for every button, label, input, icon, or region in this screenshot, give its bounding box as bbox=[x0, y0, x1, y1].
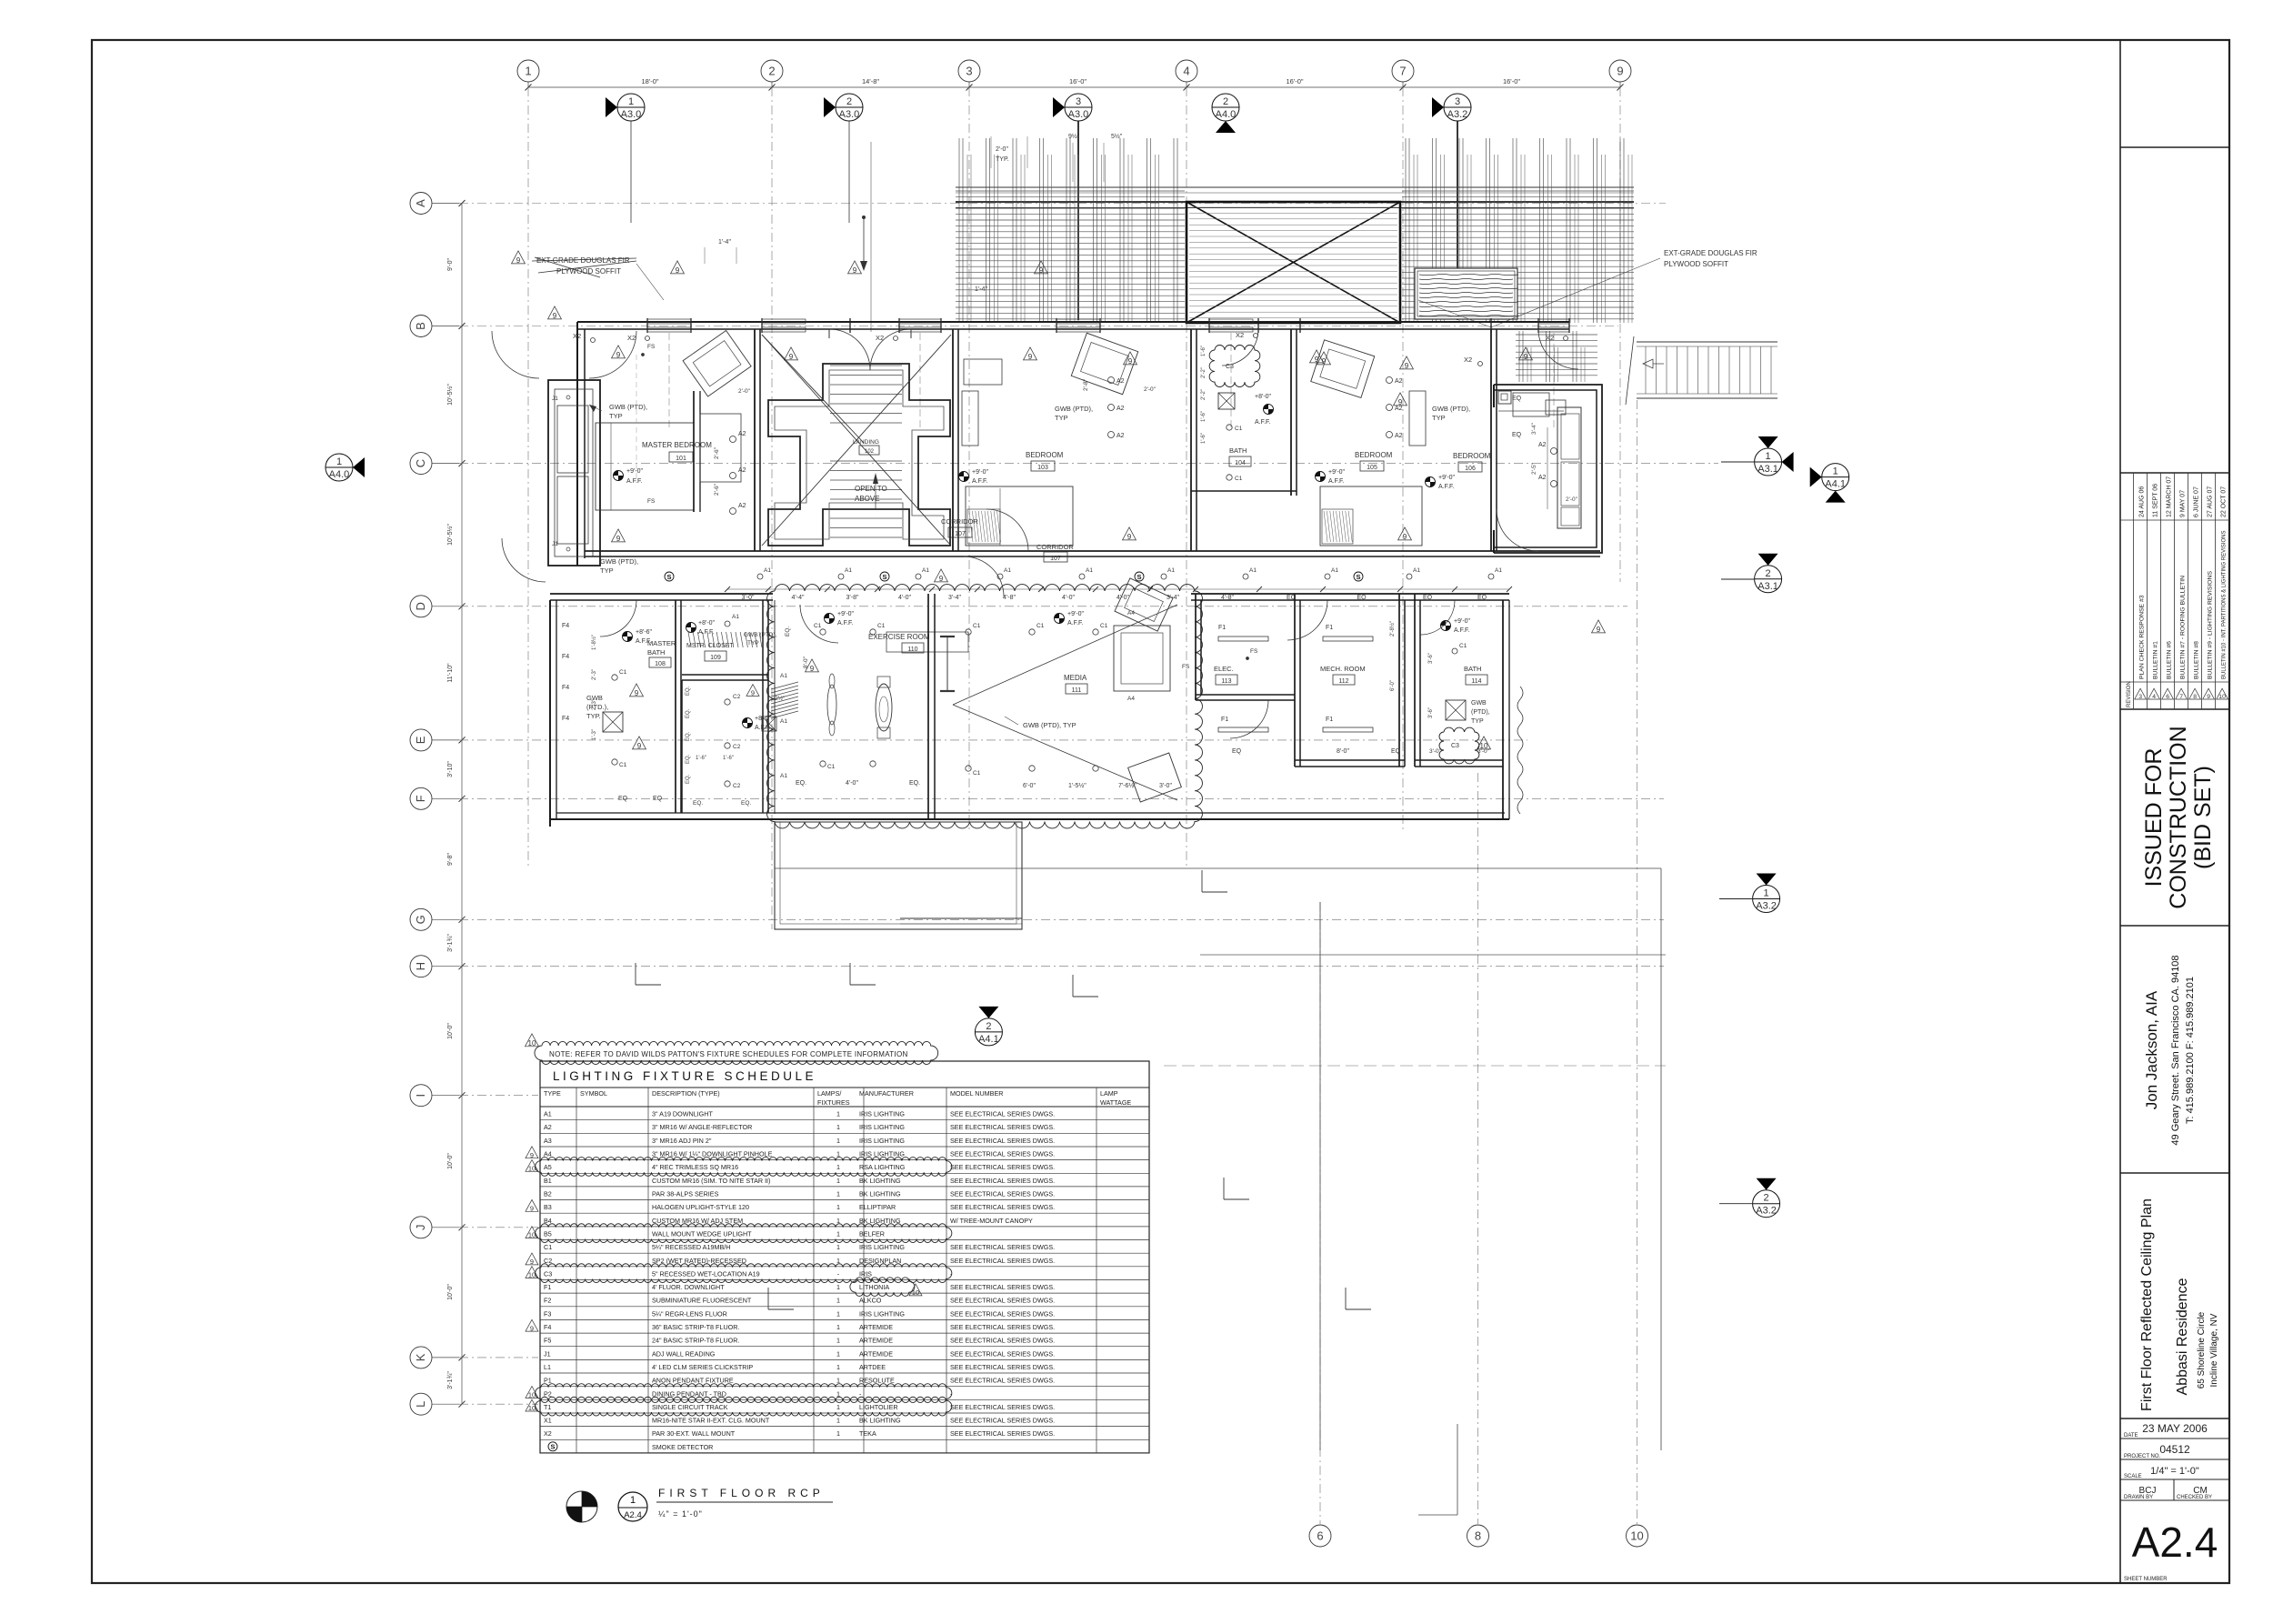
stair top double doors bbox=[829, 329, 870, 370]
svg-text:1'-6": 1'-6" bbox=[1201, 346, 1207, 356]
svg-text:A1: A1 bbox=[764, 567, 771, 574]
svg-text:BELFER: BELFER bbox=[859, 1230, 885, 1238]
svg-text:A3.2: A3.2 bbox=[1756, 1206, 1777, 1217]
svg-text:10: 10 bbox=[912, 1288, 919, 1297]
svg-text:First Floor Reflected Ceiling: First Floor Reflected Ceiling Plan bbox=[2139, 1198, 2155, 1411]
svg-text:1: 1 bbox=[836, 1309, 840, 1318]
svg-text:C3: C3 bbox=[1451, 743, 1459, 749]
stair X open-to-above bbox=[762, 335, 951, 546]
svg-text:C2: C2 bbox=[733, 783, 741, 789]
svg-text:6 JUNE 07: 6 JUNE 07 bbox=[2193, 486, 2199, 517]
svg-text:9: 9 bbox=[1405, 362, 1409, 370]
stair bridge right bbox=[1637, 341, 1777, 343]
svg-text:2: 2 bbox=[1764, 1193, 1769, 1204]
svg-text:X2: X2 bbox=[573, 332, 581, 340]
svg-text:FIXTURES: FIXTURES bbox=[817, 1098, 850, 1107]
svg-text:C1: C1 bbox=[1235, 426, 1243, 432]
svg-text:L: L bbox=[414, 1401, 427, 1408]
svg-text:SEE ELECTRICAL SERIES DWGS.: SEE ELECTRICAL SERIES DWGS. bbox=[950, 1349, 1055, 1358]
svg-text:EQ.: EQ. bbox=[785, 627, 791, 637]
svg-text:IRIS LIGHTING: IRIS LIGHTING bbox=[859, 1110, 905, 1118]
svg-text:SEE ELECTRICAL SERIES DWGS.: SEE ELECTRICAL SERIES DWGS. bbox=[950, 1123, 1055, 1131]
svg-text:SEE ELECTRICAL SERIES DWGS.: SEE ELECTRICAL SERIES DWGS. bbox=[950, 1429, 1055, 1438]
svg-text:B2: B2 bbox=[544, 1190, 552, 1198]
lighting fixture schedule bbox=[540, 1061, 1149, 1453]
svg-text:MASTER BEDROOM: MASTER BEDROOM bbox=[642, 441, 712, 449]
svg-text:BATH: BATH bbox=[1464, 665, 1481, 673]
svg-text:LAMPS/: LAMPS/ bbox=[817, 1089, 841, 1098]
svg-text:2: 2 bbox=[1766, 568, 1771, 579]
svg-text:2: 2 bbox=[846, 96, 852, 107]
svg-text:MR16-NITE STAR II-EXT. CLG. MO: MR16-NITE STAR II-EXT. CLG. MOUNT bbox=[652, 1417, 770, 1425]
svg-text:105: 105 bbox=[1367, 465, 1377, 471]
svg-text:1: 1 bbox=[630, 1495, 636, 1506]
svg-text:SEE ELECTRICAL SERIES DWGS.: SEE ELECTRICAL SERIES DWGS. bbox=[950, 1257, 1055, 1265]
svg-text:1: 1 bbox=[836, 1363, 840, 1371]
svg-text:OPEN TO: OPEN TO bbox=[855, 485, 887, 493]
elec room bbox=[1195, 594, 1197, 700]
svg-text:3: 3 bbox=[966, 65, 972, 78]
svg-text:C1: C1 bbox=[973, 770, 981, 777]
svg-text:10: 10 bbox=[528, 1271, 536, 1279]
svg-text:A3.0: A3.0 bbox=[839, 109, 860, 120]
svg-text:9: 9 bbox=[751, 689, 755, 697]
svg-text:C1: C1 bbox=[1459, 643, 1467, 649]
svg-text:22 OCT 07: 22 OCT 07 bbox=[2220, 486, 2227, 517]
svg-text:A2: A2 bbox=[738, 467, 746, 474]
svg-text:W/ TREE-MOUNT CANOPY: W/ TREE-MOUNT CANOPY bbox=[950, 1217, 1033, 1225]
svg-text:C2: C2 bbox=[733, 694, 741, 700]
svg-text:BCJ: BCJ bbox=[2139, 1486, 2157, 1496]
svg-text:LIGHTOLIER: LIGHTOLIER bbox=[859, 1403, 898, 1411]
svg-text:2'-0": 2'-0" bbox=[1566, 496, 1578, 503]
svg-text:A4.1: A4.1 bbox=[1825, 479, 1846, 490]
centerline arrow bbox=[863, 217, 865, 266]
svg-text:DATE: DATE bbox=[2124, 1433, 2138, 1439]
svg-text:1: 1 bbox=[836, 1230, 840, 1238]
svg-text:1/4" = 1'-0": 1/4" = 1'-0" bbox=[2150, 1466, 2199, 1477]
crossed skylight box bbox=[1187, 202, 1400, 323]
svg-text:2'-8½": 2'-8½" bbox=[1389, 621, 1396, 637]
svg-text:PLAN CHECK RESPONSE #3: PLAN CHECK RESPONSE #3 bbox=[2138, 595, 2145, 679]
svg-text:3'-6": 3'-6" bbox=[1428, 707, 1434, 718]
svg-text:TYP.: TYP. bbox=[996, 156, 1009, 163]
svg-text:4'-0": 4'-0" bbox=[846, 780, 858, 787]
svg-text:111: 111 bbox=[1072, 687, 1082, 694]
svg-text:BULLETIN #8: BULLETIN #8 bbox=[2193, 641, 2199, 679]
svg-text:GWB (PTD),: GWB (PTD), bbox=[1055, 405, 1093, 413]
svg-text:A3.0: A3.0 bbox=[621, 109, 642, 120]
svg-text:SEE ELECTRICAL SERIES DWGS.: SEE ELECTRICAL SERIES DWGS. bbox=[950, 1297, 1055, 1305]
svg-text:RESOLUTE: RESOLUTE bbox=[859, 1377, 895, 1385]
svg-text:J1: J1 bbox=[552, 541, 558, 547]
svg-text:BULLETIN #7 - ROOFING BULLETIN: BULLETIN #7 - ROOFING BULLETIN bbox=[2179, 576, 2186, 679]
svg-text:4' FLUOR. DOWNLIGHT: 4' FLUOR. DOWNLIGHT bbox=[652, 1283, 725, 1291]
svg-text:F4: F4 bbox=[562, 716, 569, 722]
svg-text:BK LIGHTING: BK LIGHTING bbox=[859, 1217, 901, 1225]
svg-text:9: 9 bbox=[530, 1324, 534, 1332]
wall bedroom103/bath104 bbox=[1190, 329, 1192, 551]
exterior wall top bbox=[577, 321, 1569, 323]
svg-text:EQ: EQ bbox=[1512, 396, 1522, 402]
svg-text:SEE ELECTRICAL SERIES DWGS.: SEE ELECTRICAL SERIES DWGS. bbox=[950, 1163, 1055, 1171]
svg-text:Abbasi Residence: Abbasi Residence bbox=[2175, 1278, 2190, 1395]
svg-text:F4: F4 bbox=[562, 685, 569, 691]
svg-text:D: D bbox=[414, 602, 427, 610]
svg-text:10: 10 bbox=[2218, 694, 2226, 700]
svg-text:ARTEMIDE: ARTEMIDE bbox=[859, 1349, 893, 1358]
bedroom106 bay C-wall bbox=[1494, 385, 1602, 553]
svg-text:9: 9 bbox=[616, 351, 621, 359]
svg-text:A4.0: A4.0 bbox=[1216, 109, 1237, 120]
svg-text:106: 106 bbox=[1465, 466, 1476, 472]
svg-text:ALKCO: ALKCO bbox=[859, 1297, 882, 1305]
svg-text:1: 1 bbox=[836, 1177, 840, 1185]
svg-text:BK LIGHTING: BK LIGHTING bbox=[859, 1417, 901, 1425]
svg-text:X2: X2 bbox=[1236, 331, 1244, 339]
svg-text:PLYWOOD SOFFIT: PLYWOOD SOFFIT bbox=[1664, 260, 1728, 268]
svg-text:TYP: TYP bbox=[1471, 718, 1484, 725]
svg-text:2'-8": 2'-8" bbox=[1083, 378, 1089, 391]
svg-text:SEE ELECTRICAL SERIES DWGS.: SEE ELECTRICAL SERIES DWGS. bbox=[950, 1417, 1055, 1425]
svg-text:EQ.: EQ. bbox=[741, 800, 751, 807]
corner marks bbox=[636, 984, 661, 986]
svg-text:A4.0: A4.0 bbox=[329, 469, 350, 480]
svg-text:4'-8": 4'-8" bbox=[1221, 595, 1234, 601]
svg-text:9: 9 bbox=[1524, 353, 1528, 361]
svg-text:9: 9 bbox=[1039, 266, 1044, 275]
svg-text:9: 9 bbox=[939, 575, 944, 583]
svg-text:ARTEMIDE: ARTEMIDE bbox=[859, 1337, 893, 1345]
svg-text:NOTE: REFER TO DAVID WILDS PAT: NOTE: REFER TO DAVID WILDS PATTON'S FIXT… bbox=[549, 1050, 908, 1058]
svg-text:10'-0": 10'-0" bbox=[447, 1153, 454, 1169]
svg-text:5¼" RECESSED A19MB/H: 5¼" RECESSED A19MB/H bbox=[652, 1243, 730, 1251]
svg-text:9: 9 bbox=[637, 742, 642, 750]
svg-text:SEE ELECTRICAL SERIES DWGS.: SEE ELECTRICAL SERIES DWGS. bbox=[950, 1110, 1055, 1118]
svg-text:A2: A2 bbox=[1116, 406, 1125, 412]
svg-text:BK LIGHTING: BK LIGHTING bbox=[859, 1177, 901, 1185]
svg-text:1: 1 bbox=[836, 1429, 840, 1438]
svg-text:9: 9 bbox=[1028, 353, 1033, 361]
svg-text:1'-4": 1'-4" bbox=[975, 286, 987, 293]
svg-text:S: S bbox=[1136, 573, 1141, 581]
svg-text:MASTER: MASTER bbox=[647, 639, 676, 647]
trellis soffit top bbox=[956, 186, 1634, 188]
svg-text:A2: A2 bbox=[1395, 378, 1403, 385]
svg-text:X2: X2 bbox=[876, 334, 884, 342]
svg-text:SEE ELECTRICAL SERIES DWGS.: SEE ELECTRICAL SERIES DWGS. bbox=[950, 1177, 1055, 1185]
svg-text:DESIGNPLAN: DESIGNPLAN bbox=[859, 1257, 901, 1265]
svg-text:G: G bbox=[414, 915, 427, 924]
svg-text:2'-6": 2'-6" bbox=[714, 446, 720, 459]
svg-text:2'-3": 2'-3" bbox=[592, 699, 597, 710]
svg-text:2: 2 bbox=[768, 65, 775, 78]
svg-text:5½": 5½" bbox=[1111, 133, 1123, 140]
svg-text:LANDING: LANDING bbox=[853, 439, 879, 446]
svg-text:SHEET NUMBER: SHEET NUMBER bbox=[2124, 1577, 2168, 1582]
svg-text:FS: FS bbox=[647, 498, 656, 505]
svg-text:+9'-0": +9'-0" bbox=[626, 468, 644, 475]
svg-text:¼" = 1'-0": ¼" = 1'-0" bbox=[658, 1509, 703, 1519]
svg-text:C1: C1 bbox=[1100, 623, 1108, 629]
svg-text:5¼" REGR-LENS FLUOR: 5¼" REGR-LENS FLUOR bbox=[652, 1309, 727, 1318]
svg-text:49 Geary Street. San Francisco: 49 Geary Street. San Francisco CA. 94108 bbox=[2170, 955, 2181, 1145]
svg-text:A1: A1 bbox=[1495, 567, 1502, 574]
svg-text:A2: A2 bbox=[1538, 475, 1547, 481]
svg-text:EQ: EQ bbox=[1512, 432, 1522, 438]
svg-text:A.F.F.: A.F.F. bbox=[636, 638, 652, 645]
svg-text:ELLIPTIPAR: ELLIPTIPAR bbox=[859, 1203, 896, 1211]
svg-text:2'-3": 2'-3" bbox=[592, 669, 597, 680]
svg-text:A.F.F.: A.F.F. bbox=[1255, 419, 1271, 426]
svg-text:5" RECESSED WET-LOCATION A19: 5" RECESSED WET-LOCATION A19 bbox=[652, 1269, 760, 1278]
svg-text:1: 1 bbox=[628, 96, 634, 107]
svg-text:10: 10 bbox=[528, 1039, 536, 1048]
svg-text:J: J bbox=[414, 1225, 427, 1231]
svg-text:3'-8": 3'-8" bbox=[846, 595, 859, 601]
svg-text:A2: A2 bbox=[1395, 406, 1403, 412]
svg-text:A3.1: A3.1 bbox=[1757, 464, 1778, 475]
svg-text:B1: B1 bbox=[544, 1177, 552, 1185]
svg-text:4'-4": 4'-4" bbox=[792, 595, 805, 601]
svg-text:9: 9 bbox=[2207, 694, 2210, 700]
svg-text:4'-0": 4'-0" bbox=[898, 595, 911, 601]
master bath walls bbox=[675, 600, 676, 813]
wall bath104/bedroom105 bbox=[1290, 329, 1292, 496]
svg-text:9: 9 bbox=[1617, 65, 1623, 78]
svg-text:10: 10 bbox=[1630, 1529, 1643, 1543]
svg-text:MECH. ROOM: MECH. ROOM bbox=[1320, 665, 1366, 673]
svg-text:F1: F1 bbox=[1221, 717, 1228, 723]
svg-text:A2: A2 bbox=[738, 503, 746, 509]
svg-text:6'-0": 6'-0" bbox=[1390, 680, 1396, 691]
svg-text:TEKA: TEKA bbox=[859, 1429, 876, 1438]
big revision cloud around exercise/media bbox=[767, 585, 1203, 828]
svg-text:IRIS LIGHTING: IRIS LIGHTING bbox=[859, 1309, 905, 1318]
svg-text:MODEL NUMBER: MODEL NUMBER bbox=[950, 1089, 1003, 1098]
svg-text:F1: F1 bbox=[544, 1283, 551, 1291]
svg-text:GWB (PTD),: GWB (PTD), bbox=[609, 403, 647, 411]
svg-text:F4: F4 bbox=[562, 623, 569, 629]
svg-text:X2: X2 bbox=[1464, 356, 1472, 364]
svg-text:Jon Jackson, AIA: Jon Jackson, AIA bbox=[2143, 990, 2160, 1109]
svg-text:27 AUG 07: 27 AUG 07 bbox=[2207, 486, 2213, 517]
svg-text:F3: F3 bbox=[544, 1309, 551, 1318]
svg-text:EQ: EQ bbox=[653, 796, 663, 802]
svg-text:SEE ELECTRICAL SERIES DWGS.: SEE ELECTRICAL SERIES DWGS. bbox=[950, 1190, 1055, 1198]
svg-text:C2: C2 bbox=[733, 744, 741, 750]
svg-text:S: S bbox=[882, 573, 886, 581]
svg-text:7: 7 bbox=[1399, 65, 1406, 78]
svg-text:A.F.F.: A.F.F. bbox=[1454, 627, 1470, 634]
svg-text:1'-5½": 1'-5½" bbox=[1068, 782, 1086, 789]
svg-text:16'-0": 16'-0" bbox=[1069, 77, 1086, 85]
svg-text:3: 3 bbox=[1455, 96, 1460, 107]
svg-text:A.F.F.: A.F.F. bbox=[837, 620, 854, 627]
svg-text:C1: C1 bbox=[814, 623, 822, 629]
terrace below bbox=[775, 822, 1022, 929]
svg-text:TYP: TYP bbox=[1432, 414, 1446, 422]
right insulation squiggle bbox=[1517, 687, 1523, 814]
svg-text:SEE ELECTRICAL SERIES DWGS.: SEE ELECTRICAL SERIES DWGS. bbox=[950, 1363, 1055, 1371]
svg-text:F1: F1 bbox=[1326, 717, 1333, 723]
grid bubbles top bbox=[517, 60, 539, 82]
svg-text:A2.4: A2.4 bbox=[624, 1510, 642, 1520]
svg-text:107: 107 bbox=[1050, 556, 1061, 562]
svg-text:114: 114 bbox=[1471, 678, 1481, 685]
svg-text:SEE ELECTRICAL SERIES DWGS.: SEE ELECTRICAL SERIES DWGS. bbox=[950, 1243, 1055, 1251]
svg-text:6: 6 bbox=[1317, 1529, 1323, 1543]
svg-text:CUSTOM MR16 (SIM. TO NITE STAR: CUSTOM MR16 (SIM. TO NITE STAR II) bbox=[652, 1177, 770, 1185]
svg-text:X1: X1 bbox=[544, 1417, 552, 1425]
bedroom106 sofa bbox=[1557, 407, 1581, 528]
svg-text:A1: A1 bbox=[922, 567, 929, 574]
svg-text:9 MAY 07: 9 MAY 07 bbox=[2179, 490, 2186, 517]
svg-text:3'-10": 3'-10" bbox=[447, 761, 454, 777]
svg-text:GWB (PTD), TYP: GWB (PTD), TYP bbox=[1023, 721, 1076, 729]
svg-text:PLYWOOD SOFFIT: PLYWOOD SOFFIT bbox=[556, 267, 621, 276]
svg-text:X2: X2 bbox=[627, 334, 636, 342]
svg-text:1: 1 bbox=[836, 1349, 840, 1358]
svg-text:9: 9 bbox=[676, 266, 680, 275]
svg-text:11 SEPT 06: 11 SEPT 06 bbox=[2152, 484, 2158, 517]
svg-text:107: 107 bbox=[955, 531, 966, 537]
exercise/media divider bbox=[927, 594, 929, 819]
svg-text:SMOKE DETECTOR: SMOKE DETECTOR bbox=[652, 1443, 713, 1451]
svg-text:A2: A2 bbox=[738, 431, 746, 437]
svg-text:EQ: EQ bbox=[1391, 748, 1401, 755]
svg-text:7'-6½": 7'-6½" bbox=[1118, 782, 1136, 789]
svg-text:C3: C3 bbox=[544, 1269, 552, 1278]
svg-text:J1: J1 bbox=[552, 396, 558, 402]
svg-text:C1: C1 bbox=[619, 669, 627, 676]
svg-text:EQ: EQ bbox=[1357, 595, 1367, 601]
svg-text:S: S bbox=[1356, 573, 1360, 581]
svg-text:A5: A5 bbox=[544, 1163, 552, 1171]
svg-text:IRIS: IRIS bbox=[859, 1269, 872, 1278]
svg-text:BEDROOM: BEDROOM bbox=[1355, 451, 1393, 459]
svg-text:9: 9 bbox=[789, 353, 794, 361]
svg-text:EQ.: EQ. bbox=[693, 800, 703, 807]
svg-text:10: 10 bbox=[1480, 742, 1488, 750]
svg-text:A1: A1 bbox=[780, 673, 787, 679]
svg-text:BEDROOM: BEDROOM bbox=[1453, 452, 1491, 460]
svg-text:4" REC TRIMLESS SQ MR16: 4" REC TRIMLESS SQ MR16 bbox=[652, 1163, 738, 1171]
svg-text:11'-10": 11'-10" bbox=[447, 663, 454, 683]
svg-text:A1: A1 bbox=[1413, 567, 1420, 574]
svg-text:EQ.: EQ. bbox=[796, 780, 806, 787]
svg-text:10: 10 bbox=[528, 1231, 536, 1239]
svg-text:9: 9 bbox=[1403, 533, 1407, 541]
svg-text:A2: A2 bbox=[1395, 433, 1403, 439]
svg-text:BATH: BATH bbox=[1229, 446, 1247, 455]
svg-text:A3: A3 bbox=[544, 1137, 552, 1145]
svg-text:A1: A1 bbox=[845, 567, 852, 574]
svg-text:9: 9 bbox=[1315, 356, 1319, 364]
svg-text:101: 101 bbox=[676, 456, 686, 462]
mstr closet bbox=[682, 674, 768, 676]
svg-text:C1: C1 bbox=[973, 623, 981, 629]
svg-text:GWB (PTD),: GWB (PTD), bbox=[1432, 405, 1470, 413]
svg-text:2'-2": 2'-2" bbox=[1201, 389, 1207, 400]
svg-text:EQ.: EQ. bbox=[909, 780, 920, 787]
svg-text:A3.2: A3.2 bbox=[1756, 901, 1777, 912]
svg-text:1: 1 bbox=[836, 1123, 840, 1131]
svg-text:SEE ELECTRICAL SERIES DWGS.: SEE ELECTRICAL SERIES DWGS. bbox=[950, 1203, 1055, 1211]
svg-text:4'-0": 4'-0" bbox=[1062, 595, 1075, 601]
svg-text:C1: C1 bbox=[1036, 623, 1045, 629]
svg-text:ARTEMIDE: ARTEMIDE bbox=[859, 1323, 893, 1331]
svg-text:X2: X2 bbox=[544, 1429, 552, 1438]
svg-text:1: 1 bbox=[836, 1190, 840, 1198]
svg-text:9: 9 bbox=[516, 256, 521, 265]
svg-text:9: 9 bbox=[1398, 398, 1403, 406]
svg-text:10: 10 bbox=[528, 1165, 536, 1173]
svg-text:1: 1 bbox=[836, 1403, 840, 1411]
svg-text:GWB (PTD),: GWB (PTD), bbox=[600, 557, 638, 566]
svg-text:+9'-0": +9'-0" bbox=[1067, 611, 1085, 617]
svg-text:18'-0": 18'-0" bbox=[641, 77, 658, 85]
svg-text:DESCRIPTION (TYPE): DESCRIPTION (TYPE) bbox=[652, 1089, 720, 1098]
svg-text:EQ.: EQ. bbox=[686, 774, 691, 784]
svg-text:FS: FS bbox=[1250, 648, 1258, 655]
svg-text:8'-0": 8'-0" bbox=[1337, 748, 1349, 755]
svg-text:3'-0": 3'-0" bbox=[1429, 748, 1442, 755]
svg-text:ADJ WALL READING: ADJ WALL READING bbox=[652, 1349, 716, 1358]
svg-text:K: K bbox=[414, 1353, 427, 1361]
svg-text:EQ.: EQ. bbox=[686, 708, 691, 718]
svg-text:+8'-6": +8'-6" bbox=[636, 629, 653, 636]
svg-text:BULLETIN #1: BULLETIN #1 bbox=[2152, 641, 2158, 679]
svg-text:C1: C1 bbox=[1235, 476, 1243, 482]
svg-text:1'-6": 1'-6" bbox=[723, 756, 734, 761]
svg-text:EQ.: EQ. bbox=[686, 731, 691, 741]
svg-text:2'-0": 2'-0" bbox=[738, 388, 751, 395]
svg-text:9: 9 bbox=[1127, 533, 1132, 541]
svg-text:F5: F5 bbox=[544, 1337, 551, 1345]
svg-text:+8'-0": +8'-0" bbox=[1255, 394, 1272, 400]
svg-text:FS: FS bbox=[1182, 664, 1190, 670]
svg-text:LIGHTING FIXTURE SCHEDULE: LIGHTING FIXTURE SCHEDULE bbox=[553, 1069, 816, 1083]
svg-text:A2: A2 bbox=[1116, 378, 1125, 385]
svg-text:+9'-0": +9'-0" bbox=[1328, 469, 1346, 476]
svg-text:1: 1 bbox=[525, 65, 531, 78]
svg-text:6: 6 bbox=[2166, 694, 2169, 700]
svg-text:108: 108 bbox=[655, 661, 666, 667]
svg-text:16'-0": 16'-0" bbox=[1286, 77, 1303, 85]
svg-text:FS: FS bbox=[647, 344, 656, 350]
stair plus-shape soffit bbox=[768, 364, 950, 546]
svg-text:3: 3 bbox=[2138, 694, 2142, 700]
svg-text:4: 4 bbox=[1183, 65, 1189, 78]
svg-text:BULLETIN #10 - INT. PARTITIONS: BULLETIN #10 - INT. PARTITIONS & LIGHTIN… bbox=[2221, 531, 2227, 679]
svg-text:IRIS LIGHTING: IRIS LIGHTING bbox=[859, 1137, 905, 1145]
svg-text:F: F bbox=[414, 795, 427, 802]
svg-text:ELEC.: ELEC. bbox=[1214, 665, 1234, 673]
title block bbox=[2119, 40, 2121, 1583]
svg-text:A4: A4 bbox=[1127, 696, 1135, 702]
svg-text:9: 9 bbox=[1128, 357, 1133, 366]
svg-text:1'-3": 1'-3" bbox=[592, 729, 597, 740]
bath 114 bbox=[1414, 594, 1416, 767]
svg-text:1: 1 bbox=[836, 1137, 840, 1145]
svg-text:A.F.F.: A.F.F. bbox=[1067, 620, 1084, 627]
svg-text:BEDROOM: BEDROOM bbox=[1026, 451, 1064, 459]
svg-text:C1: C1 bbox=[619, 762, 627, 768]
svg-text:+8'-0": +8'-0" bbox=[698, 620, 716, 627]
svg-text:A4: A4 bbox=[1127, 610, 1135, 617]
svg-text:3'-0": 3'-0" bbox=[1159, 783, 1172, 789]
